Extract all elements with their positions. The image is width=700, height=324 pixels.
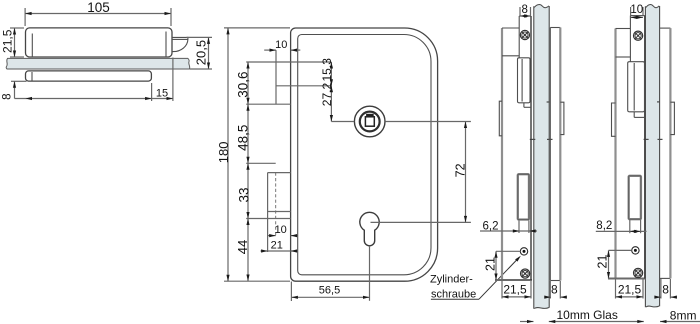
- svg-text:27,2: 27,2: [320, 82, 334, 106]
- keyhole (euro cylinder): [360, 212, 379, 245]
- strike strip: [629, 16, 631, 62]
- glass pane left view: [534, 5, 549, 309]
- svg-text:21: 21: [271, 239, 283, 251]
- spindle boss (body side): [612, 103, 616, 136]
- bottom screw: [634, 268, 643, 277]
- lower plate inner line: [31, 72, 33, 81]
- dim 21,5 (left view): [530, 281, 532, 299]
- spindle hole outer circle: [354, 106, 385, 137]
- left chain dim line: [247, 62, 249, 281]
- dim 72: [465, 122, 467, 223]
- chain ref line y163.3: [246, 162, 276, 164]
- svg-text:33: 33: [236, 187, 251, 202]
- svg-text:20,5: 20,5: [194, 40, 209, 65]
- bottom dim line with 15 (top view): [15, 98, 174, 100]
- dim 10 (strip width top): [630, 7, 632, 16]
- svg-text:10: 10: [275, 39, 287, 51]
- spindle square: [365, 117, 374, 126]
- body left inner line: [31, 34, 33, 58]
- chain ref line y62: [246, 61, 331, 63]
- svg-text:10: 10: [275, 224, 287, 236]
- svg-text:15: 15: [156, 88, 168, 100]
- lock body (left view): [501, 28, 503, 280]
- dim 8 (plate, left view): [549, 281, 551, 299]
- svg-text:schraube: schraube: [431, 288, 476, 300]
- cover plate (right view): [660, 27, 671, 29]
- spindle top bar: [366, 114, 374, 117]
- glass pane (top view): [6, 58, 190, 69]
- hidden box left of body: [267, 173, 269, 212]
- top screw: [520, 30, 529, 39]
- dim 21 (front): [261, 250, 268, 252]
- dim 56,5: [290, 282, 292, 302]
- dim 21,5 (right view): [615, 279, 617, 299]
- dim 8 (strip width top): [519, 7, 521, 16]
- top screw: [634, 31, 643, 40]
- svg-text:8: 8: [2, 93, 14, 99]
- svg-text:10: 10: [630, 4, 643, 16]
- upper slot: [518, 58, 531, 103]
- svg-text:8: 8: [551, 283, 558, 297]
- spindle ring: [360, 112, 380, 132]
- lock body (right view): [614, 29, 616, 279]
- lower slot: [518, 174, 529, 219]
- svg-text:72: 72: [454, 163, 468, 177]
- strike strip: [518, 16, 520, 58]
- dim 10 (front bottom): [268, 235, 276, 237]
- bottom screw: [521, 269, 530, 278]
- dim 8 (plate, right view): [660, 279, 662, 299]
- dim 105: [24, 8, 26, 26]
- upper slot: [628, 62, 645, 112]
- dim 21,5 (top view left): [10, 27, 24, 29]
- lock body (top view): [26, 28, 173, 57]
- svg-text:21,5: 21,5: [503, 283, 527, 297]
- svg-text:30,6: 30,6: [236, 71, 251, 97]
- latch bolt (top view): [172, 37, 188, 51]
- spindle centerline: [331, 121, 354, 123]
- cover plate (left view): [549, 28, 551, 281]
- svg-text:21: 21: [596, 255, 610, 269]
- svg-text:48,5: 48,5: [236, 125, 251, 151]
- dim 10 (front top): [275, 50, 277, 104]
- svg-text:105: 105: [87, 0, 110, 15]
- svg-text:6,2: 6,2: [483, 221, 499, 233]
- glass notch tick: [547, 101, 550, 103]
- glass pane right view: [646, 5, 659, 307]
- svg-text:15,3: 15,3: [320, 58, 334, 82]
- svg-text:8: 8: [662, 282, 669, 296]
- lower slot: [629, 176, 641, 219]
- spindle boss (body side): [499, 101, 502, 136]
- dim 8 (top view, vertical): [11, 80, 27, 82]
- svg-text:44: 44: [235, 240, 250, 254]
- cylinder screw dot: [520, 248, 527, 255]
- lower cover plate (top view): [26, 71, 152, 81]
- spindle boss (plate side): [670, 102, 674, 134]
- glass notch tick: [657, 101, 660, 103]
- keyhole centerline: [371, 221, 471, 223]
- dim 21 (right view): [609, 249, 632, 251]
- dim 21 (left view): [496, 250, 520, 252]
- chain ref line y218.5: [246, 218, 290, 220]
- svg-text:21: 21: [484, 257, 498, 271]
- dim 8,2: [629, 220, 631, 233]
- svg-text:8: 8: [521, 4, 527, 16]
- dim 20,5 (top view right): [187, 36, 213, 38]
- svg-text:180: 180: [216, 142, 231, 164]
- cylinder screw dot: [632, 247, 639, 254]
- chain arrows: [246, 62, 249, 69]
- svg-text:21,5: 21,5: [1, 29, 15, 53]
- svg-text:8,2: 8,2: [596, 220, 612, 232]
- chain ref line y104.2: [246, 103, 290, 105]
- latch second line: [172, 38, 188, 40]
- body right inner line: [165, 32, 167, 58]
- lock body inner outline: [298, 35, 431, 275]
- spindle boss (plate side): [560, 102, 564, 134]
- leader to cylinder screw dot: [479, 257, 520, 299]
- dim chain 15,3 / 27,2: [276, 85, 331, 87]
- dim 180: [224, 27, 290, 29]
- dashed hidden line: [275, 173, 277, 236]
- svg-text:21,5: 21,5: [618, 282, 642, 296]
- svg-text:10mm Glas: 10mm Glas: [557, 308, 618, 322]
- lock body outline front view (outer): [291, 28, 438, 281]
- svg-text:8mm: 8mm: [670, 309, 697, 323]
- dim 6,2: [518, 221, 520, 234]
- keyhole drop line: [369, 246, 371, 301]
- ext line for 21: [267, 212, 269, 253]
- svg-text:Zylinder-: Zylinder-: [430, 274, 473, 286]
- svg-text:56,5: 56,5: [319, 284, 340, 296]
